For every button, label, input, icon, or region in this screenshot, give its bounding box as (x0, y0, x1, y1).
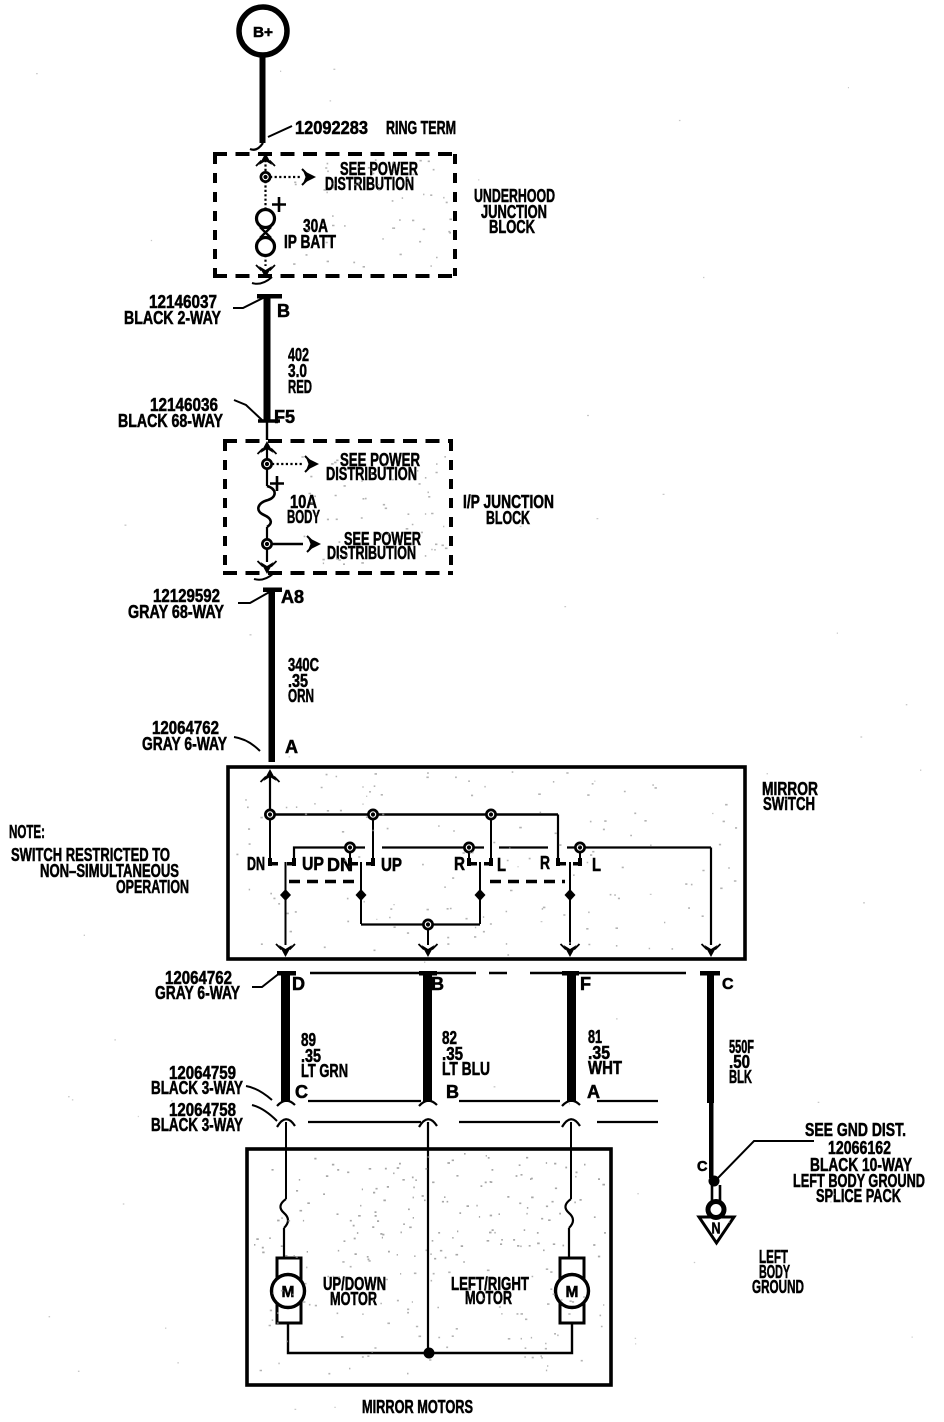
svg-text:RED: RED (288, 376, 312, 397)
svg-text:LT BLU: LT BLU (442, 1058, 490, 1079)
svg-text:GROUND: GROUND (752, 1276, 804, 1297)
node underhood feed (261, 172, 270, 181)
mirror switch box (228, 767, 745, 959)
wire node to fuse coil (266, 468, 268, 486)
svg-text:UP: UP (381, 854, 402, 875)
contact feet arm1 (268, 858, 296, 866)
svg-text:ORN: ORN (288, 685, 314, 706)
svg-text:C: C (722, 976, 734, 993)
connector 12064762 GRAY 6-WAY pin A (142, 717, 298, 757)
node row2 R3 (464, 843, 473, 852)
connector face line row1 (310, 972, 686, 974)
svg-text:GRAY 6-WAY: GRAY 6-WAY (142, 733, 227, 754)
underhood junction block dashed box (213, 154, 457, 276)
throw bridge bus row2 (294, 848, 711, 946)
left body ground symbol (699, 1185, 734, 1243)
svg-text:SPLICE PACK: SPLICE PACK (816, 1185, 901, 1206)
node I/P feed (262, 459, 271, 468)
inline splice break (left) (280, 1199, 288, 1258)
wire 340C .35 ORN (263, 588, 319, 763)
connector 12064758 BLACK 3-WAY (151, 1099, 277, 1135)
mirror motors box (247, 1149, 611, 1385)
plus sign (underhood) (272, 197, 286, 212)
connector face row3 (277, 1119, 658, 1127)
dotted arrow SEE POWER DISTRIBUTION (underhood) (270, 158, 418, 194)
splice node (709, 1176, 720, 1187)
arrow into underhood block (256, 153, 275, 178)
pin letters C B A (295, 1082, 600, 1102)
svg-text:F5: F5 (274, 407, 295, 427)
node row2 DN2 (345, 843, 354, 852)
node bus UP2 (368, 810, 377, 819)
wire coil to lower node (266, 527, 268, 540)
svg-text:A8: A8 (281, 587, 304, 607)
arm3 output wire (475, 862, 486, 924)
svg-text:C: C (697, 1159, 708, 1175)
output arrow C (702, 944, 721, 957)
svg-text:MOTOR: MOTOR (330, 1288, 377, 1309)
svg-text:MIRROR MOTORS: MIRROR MOTORS (362, 1396, 473, 1417)
svg-text:L: L (497, 854, 506, 875)
svg-text:BLACK 3-WAY: BLACK 3-WAY (151, 1077, 243, 1098)
droppers row2 to contacts (350, 852, 580, 858)
mechanical link dashes left (289, 880, 358, 884)
arm2 output wire (356, 862, 367, 924)
label UNDERHOOD JUNCTION BLOCK (474, 185, 555, 237)
svg-text:A: A (285, 737, 298, 757)
contact feet arm4 (556, 858, 582, 866)
svg-text:UP: UP (302, 853, 324, 874)
dropper to DN contact arm1 (269, 819, 271, 858)
svg-text:BLK: BLK (729, 1066, 752, 1087)
svg-text:BODY: BODY (287, 506, 320, 527)
svg-text:SWITCH: SWITCH (763, 793, 815, 814)
svg-text:B: B (431, 974, 444, 994)
node joined output (423, 920, 432, 929)
joined output U to B (361, 925, 480, 958)
connector 12064759 BLACK 3-WAY (151, 1062, 272, 1100)
svg-text:M: M (566, 1284, 579, 1301)
pin caps row1 (277, 971, 720, 976)
wire D to up/down motor (285, 1122, 287, 1199)
svg-text:DISTRIBUTION: DISTRIBUTION (325, 173, 414, 194)
node bus L3 (486, 810, 495, 819)
connector 12146037 BLACK 2-WAY pin B (124, 291, 290, 328)
contact feet arm2 (348, 858, 375, 866)
svg-text:D: D (292, 974, 305, 994)
switch feed bus (270, 815, 558, 859)
connector 12064762 GRAY 6-WAY (switch outputs) (155, 967, 281, 1003)
arm4 output wire to F (561, 862, 580, 957)
left/right motor M (556, 1258, 589, 1323)
label UP/DOWN MOTOR (323, 1273, 386, 1309)
svg-text:WHT: WHT (588, 1057, 623, 1078)
svg-text:R: R (540, 852, 550, 873)
node row2 L4 (575, 843, 584, 852)
svg-text:NOTE:: NOTE: (9, 821, 45, 842)
svg-text:B: B (446, 1082, 459, 1102)
svg-text:N: N (712, 1221, 721, 1238)
connector 12146036 BLACK 68-WAY pin F5 (118, 394, 295, 440)
ground leader SEE GND DIST (716, 1119, 925, 1206)
svg-text:GRAY 6-WAY: GRAY 6-WAY (155, 982, 240, 1003)
wire node to fuse (264, 181, 266, 211)
fuse 30A IP BATT (257, 210, 337, 256)
svg-text:B: B (277, 301, 290, 321)
svg-text:A: A (587, 1082, 600, 1102)
arm1 output wire to D (276, 862, 295, 957)
plus sign (I/P) (270, 476, 284, 491)
label LEFT/RIGHT MOTOR (451, 1273, 529, 1308)
arrow out of underhood block (252, 255, 275, 284)
svg-text:BLOCK: BLOCK (489, 216, 535, 237)
svg-text:RING TERM: RING TERM (386, 117, 456, 138)
svg-text:12092283: 12092283 (295, 117, 368, 138)
svg-text:BLACK 2-WAY: BLACK 2-WAY (124, 307, 221, 328)
dropper to L contact arm3 (490, 819, 492, 858)
battery terminal B+ (239, 7, 287, 55)
inline splice break (right) (565, 1199, 573, 1258)
svg-text:DN: DN (327, 854, 353, 875)
svg-text:BLACK 3-WAY: BLACK 3-WAY (151, 1114, 243, 1135)
wire 89 .35 LT GRN (281, 973, 348, 1102)
svg-text:L: L (592, 854, 601, 875)
svg-text:F: F (580, 974, 591, 994)
svg-text:MOTOR: MOTOR (465, 1287, 512, 1308)
svg-text:R: R (454, 853, 465, 874)
wire 402 3.0 RED (257, 294, 312, 422)
wire B to motors common (427, 1122, 429, 1352)
switch position labels (247, 852, 601, 875)
svg-text:BLACK 68-WAY: BLACK 68-WAY (118, 410, 224, 431)
node I/P lower (262, 539, 271, 548)
dropper to UP contact arm2 (372, 819, 374, 858)
wire B+ to underhood junction block (250, 57, 266, 150)
label I/P JUNCTION BLOCK (463, 491, 554, 528)
arrow into I/P block (258, 441, 277, 465)
svg-text:IP BATT: IP BATT (284, 231, 337, 252)
svg-text:OPERATION: OPERATION (116, 876, 189, 897)
switch feed entry arrow (261, 769, 280, 814)
label LEFT BODY GROUND (752, 1246, 804, 1297)
I/P junction block dashed box (223, 441, 453, 573)
svg-text:GRAY 68-WAY: GRAY 68-WAY (128, 601, 225, 622)
arrow out of I/P block (254, 548, 277, 580)
dotted arrow SEE POWER DISTRIBUTION (I/P upper) (272, 449, 420, 484)
NOTE text (9, 821, 189, 897)
label MIRROR SWITCH (762, 778, 818, 814)
arrow SEE POWER DISTRIBUTION (I/P lower) (272, 528, 421, 563)
svg-text:B+: B+ (253, 25, 273, 41)
svg-text:C: C (295, 1082, 308, 1102)
svg-text:BLOCK: BLOCK (486, 507, 530, 528)
connector face row2 (277, 1101, 658, 1106)
svg-text:DN: DN (247, 853, 265, 874)
mechanical link dashes right (490, 880, 565, 884)
svg-text:M: M (282, 1284, 295, 1301)
wire 550F .50 BLK (707, 973, 754, 1178)
node bus DN1 (265, 810, 274, 819)
node motor common (424, 1348, 435, 1359)
motor common return wires (288, 1323, 572, 1353)
svg-text:LT GRN: LT GRN (301, 1060, 348, 1081)
connector label 12092283 RING TERM (268, 117, 456, 138)
wire 82 .35 LT BLU (423, 973, 490, 1102)
pin letters D B F C (292, 974, 734, 994)
contact feet arm3 (467, 858, 493, 866)
up/down motor M (272, 1258, 305, 1323)
wire F to left/right motor (570, 1122, 572, 1199)
wire 81 .35 WHT (567, 973, 623, 1102)
fuse 10A BODY (coil) (258, 486, 320, 527)
connector 12129592 GRAY 68-WAY pin A8 (128, 585, 304, 622)
